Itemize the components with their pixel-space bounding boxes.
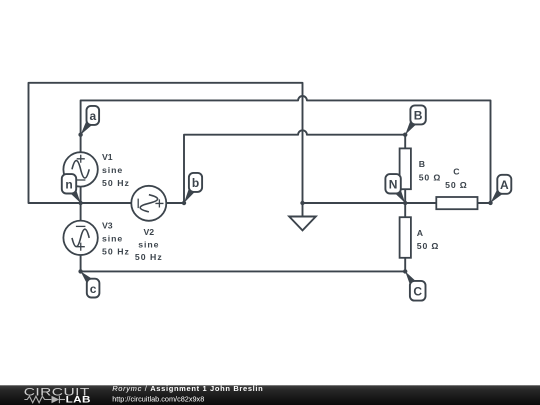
svg-text:50 Hz: 50 Hz [102, 247, 130, 257]
svg-text:http://circuitlab.com/c82x9x8: http://circuitlab.com/c82x9x8 [112, 395, 204, 404]
svg-text:N: N [389, 178, 398, 192]
value label V2 sine 50 Hz [135, 227, 163, 262]
svg-text:B: B [414, 109, 423, 123]
svg-text:LAB: LAB [66, 396, 91, 405]
svg-text:50 Ω: 50 Ω [419, 173, 441, 183]
node n [62, 174, 83, 205]
node c [78, 269, 99, 297]
svg-text:a: a [89, 109, 96, 123]
node b [182, 173, 202, 205]
svg-text:n: n [65, 178, 72, 192]
svg-text:C: C [413, 285, 422, 299]
svg-text:B: B [419, 159, 425, 169]
ground [289, 203, 316, 230]
svg-text:50 Ω: 50 Ω [445, 180, 467, 190]
node a [78, 106, 99, 137]
junction ground dot [300, 201, 304, 205]
wire a through V1 to n [80, 135, 82, 203]
wire c to C junction along bottom [81, 270, 406, 272]
wire phase a: from a junction up, across, down right side to A junction (hops over ground column) [81, 96, 491, 203]
svg-text:b: b [192, 176, 199, 190]
value label V1 sine 50 Hz [102, 152, 130, 188]
node A [488, 175, 511, 205]
wire phase b: from b junction up and across to B junction (hop over ground column) [184, 130, 405, 203]
wire neutral loop: n up left bus, across top, down to ground column [29, 83, 303, 203]
wire n through V3 to c [80, 203, 82, 271]
CircuitLab logo [24, 386, 90, 399]
svg-text:Rorymc / Assignment 1 John Bre: Rorymc / Assignment 1 John Breslin [112, 384, 263, 393]
resistor B [400, 148, 411, 189]
wire ground junction to N junction [303, 202, 406, 204]
svg-text:A: A [500, 178, 509, 192]
svg-text:50 Ω: 50 Ω [417, 241, 439, 251]
value label B 50 ohm [419, 159, 441, 182]
resistor A [400, 217, 411, 258]
value label A 50 ohm [417, 228, 439, 251]
svg-text:V2: V2 [143, 227, 154, 237]
svg-text:sine: sine [102, 165, 123, 175]
svg-text:50 Hz: 50 Hz [135, 252, 163, 262]
wire N to A through resistor C [405, 202, 490, 204]
svg-text:sine: sine [102, 234, 123, 244]
svg-text:50 Hz: 50 Hz [102, 178, 130, 188]
node B [403, 105, 426, 136]
svg-text:C: C [453, 167, 460, 177]
value label C 50 ohm [445, 167, 467, 190]
resistor C [436, 197, 477, 209]
wire n to b through V2 [81, 202, 184, 204]
svg-text:sine: sine [138, 240, 159, 250]
svg-text:V3: V3 [102, 220, 113, 230]
svg-text:A: A [417, 228, 424, 238]
node N [385, 174, 407, 205]
voltage source V3 (V1 flipped vertically) [63, 221, 97, 255]
voltage source V2 (rotated 90) [131, 186, 166, 221]
node C [403, 269, 426, 300]
svg-text:c: c [90, 282, 97, 296]
voltage source V1 [63, 152, 97, 186]
value label V3 sine 50 Hz [102, 220, 130, 256]
svg-text:V1: V1 [102, 152, 113, 162]
wire B through resistor B to N and resistor A to C junction [404, 135, 406, 272]
